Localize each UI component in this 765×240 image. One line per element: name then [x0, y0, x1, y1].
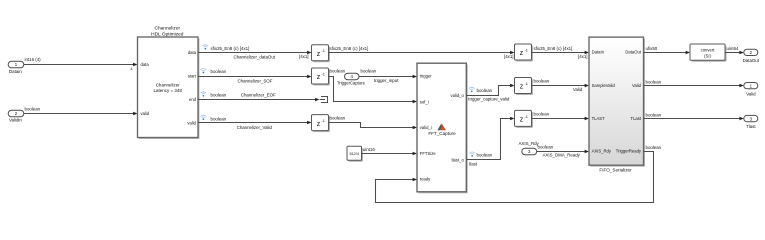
svg-text:z: z [317, 51, 321, 58]
svg-text:-1: -1 [525, 81, 528, 86]
svg-text:valid: valid [187, 120, 196, 125]
svg-text:-1: -1 [322, 48, 325, 53]
signal logging badge on Channelizer start out [201, 69, 207, 74]
svg-text:boolean: boolean [477, 153, 493, 158]
unit delay Z2L [312, 68, 331, 86]
svg-text:DataOut: DataOut [743, 58, 760, 63]
svg-text:boolean: boolean [361, 69, 377, 74]
wire 512/4 to FFT_Capture FFTSize, uint16 [362, 147, 418, 155]
svg-text:FIFO_Serializer: FIFO_Serializer [599, 167, 632, 172]
signal logging badge on FFT tlast_o [469, 152, 475, 157]
block convert (SI) [690, 44, 727, 62]
svg-text:Channelizer_Valid: Channelizer_Valid [237, 125, 273, 130]
unit delay Z3R [515, 110, 534, 128]
svg-text:trigger_capture_valid: trigger_capture_valid [468, 96, 510, 101]
wire Z3L to FFT_Capture valid_i, boolean [329, 115, 418, 129]
svg-text:DataOut: DataOut [625, 50, 641, 55]
svg-text:z: z [520, 117, 524, 124]
wire FFT tlast_o to Z3R, boolean, named tlast [466, 117, 514, 167]
wire Validin to Channelizer valid, type boolean [24, 106, 138, 115]
svg-text:boolean: boolean [534, 111, 550, 116]
svg-text:z: z [520, 84, 524, 91]
svg-text:valid_o: valid_o [451, 93, 465, 98]
wire Datain to Channelizer data, type int16 (4) [24, 57, 138, 71]
svg-text:TLast: TLast [631, 116, 642, 121]
block Channelizer (HDL Optimized subsystem) [138, 25, 200, 139]
svg-text:Channelizer_SOF: Channelizer_SOF [238, 79, 273, 84]
svg-text:trigger_input: trigger_input [374, 78, 399, 83]
signal logging badge on FFT valid_o [469, 87, 475, 92]
wire Z1R to FIFO DataIn, sfix25_En8 (c) [4x1] [532, 46, 590, 59]
wire Channelizer valid to Z3L, boolean, named Channelizer_Valid [198, 116, 312, 130]
svg-text:Valid: Valid [632, 83, 642, 88]
inport 3 AXIS_Rdy [519, 141, 540, 155]
svg-text:boolean: boolean [646, 145, 662, 150]
svg-text:-1: -1 [525, 114, 528, 119]
svg-text:boolean: boolean [534, 78, 550, 83]
wire Channelizer end to terminator, boolean, named Channelizer_EOF [198, 92, 320, 101]
svg-text:boolean: boolean [538, 145, 554, 150]
inport 2 Validin [8, 110, 24, 122]
svg-text:sfix25_En8 (c) [4x1]: sfix25_En8 (c) [4x1] [330, 46, 369, 51]
svg-text:-1: -1 [322, 72, 325, 77]
svg-text:AXIS_Rdy: AXIS_Rdy [519, 141, 540, 146]
svg-text:z: z [317, 121, 321, 128]
svg-text:sfix25_En8 (c) [4x1]: sfix25_En8 (c) [4x1] [211, 46, 250, 51]
inport 1 Datain [8, 61, 24, 74]
signal logging badge on Channelizer end out [201, 92, 207, 97]
block FFT_Capture (MATLAB Function) [417, 63, 468, 193]
svg-text:HDL Optimized: HDL Optimized [151, 31, 184, 37]
svg-text:boolean: boolean [646, 112, 662, 117]
unit delay Z1R [515, 44, 534, 62]
svg-text:Valid: Valid [573, 87, 583, 92]
svg-text:boolean: boolean [477, 88, 493, 93]
svg-text:[4x1]: [4x1] [504, 54, 514, 59]
svg-text:boolean: boolean [330, 115, 346, 120]
svg-text:Channelizer_dataOut: Channelizer_dataOut [234, 55, 276, 60]
svg-text:FFTSize: FFTSize [420, 151, 436, 156]
svg-text:AXIS_DMA_Ready: AXIS_DMA_Ready [543, 153, 581, 158]
svg-text:z: z [317, 74, 321, 81]
terminator on Channelizer_EOF [320, 96, 328, 103]
inport 4 TriggerCapture [337, 73, 366, 85]
outport 2 DataOut [743, 49, 760, 63]
svg-text:valid: valid [141, 111, 150, 116]
svg-text:SampleValid: SampleValid [592, 83, 616, 88]
wire FFT valid_o to Z2R, boolean, named trigger_capture_valid [466, 84, 514, 102]
svg-text:data: data [188, 50, 197, 55]
svg-text:FFT_Capture: FFT_Capture [428, 131, 456, 136]
svg-text:TriggerReady: TriggerReady [616, 148, 642, 153]
wire Z1L to Z1R, sfix25_En8 (c) [4x1] [329, 46, 515, 59]
svg-text:uint16: uint16 [363, 147, 376, 152]
svg-text:Tlast: Tlast [746, 124, 756, 129]
svg-text:Latency = 348: Latency = 348 [153, 88, 182, 93]
svg-text:uint64: uint64 [727, 46, 740, 51]
MATLAB membrane icon [438, 124, 447, 131]
outport 3 Tlast [744, 115, 758, 129]
svg-text:int16 (4): int16 (4) [25, 57, 42, 62]
svg-text:convert: convert [701, 47, 716, 52]
svg-text:-1: -1 [525, 48, 528, 53]
svg-text:512/4: 512/4 [349, 152, 359, 156]
svg-text:ready: ready [420, 177, 431, 182]
wire Z2L to FFT_Capture sof_i, boolean [329, 69, 418, 104]
svg-text:Channelizer: Channelizer [154, 25, 180, 31]
svg-text:boolean: boolean [211, 116, 227, 121]
unit delay Z3L [312, 115, 331, 133]
constant 512/4 [347, 146, 363, 162]
svg-text:boolean: boolean [330, 69, 346, 74]
svg-text:boolean: boolean [646, 79, 662, 84]
svg-text:valid_i: valid_i [420, 125, 432, 130]
svg-text:-1: -1 [322, 118, 325, 123]
wire Channelizer data to Z1L, sfix25_En8 (c) [4x1], named Channelizer_dataOut [198, 46, 312, 60]
svg-text:[4x1]: [4x1] [578, 54, 588, 59]
signal logging badge on Channelizer valid out [201, 115, 207, 120]
svg-text:Datain: Datain [9, 69, 22, 74]
wire Z3R to FIFO TLAST, boolean [532, 111, 590, 120]
wire AXIS_Rdy to FIFO AXIS_Rdy, boolean, named AXIS_DMA_Ready [537, 145, 589, 158]
wire FIFO TriggerReady feedback to FFT ready, boolean [376, 145, 662, 203]
signal logging badge on Channelizer data out [203, 45, 209, 50]
wire TriggerCapture to FFT_Capture trigger, boolean, named trigger_input [359, 69, 417, 84]
svg-text:TLAST: TLAST [592, 116, 605, 121]
wire FIFO Valid to outport Valid, boolean [644, 79, 744, 87]
svg-text:[4x1]: [4x1] [299, 54, 309, 59]
wire FIFO TLast to outport Tlast, boolean [644, 112, 744, 120]
svg-text:data: data [141, 62, 150, 67]
svg-text:TriggerCapture: TriggerCapture [337, 81, 366, 86]
svg-text:trigger: trigger [420, 74, 432, 79]
svg-text:Valid: Valid [746, 91, 756, 96]
svg-text:sof_i: sof_i [420, 99, 429, 104]
svg-text:boolean: boolean [25, 106, 41, 111]
wire FIFO DataOut to convert, ufix50 [644, 46, 691, 54]
unit delay Z1L [312, 45, 331, 63]
wire Channelizer start to Z2L, boolean, named Channelizer_SOF [198, 69, 312, 84]
svg-text:tlast: tlast [469, 162, 478, 167]
svg-text:Channelizer: Channelizer [156, 83, 181, 88]
svg-text:sfix25_En8 (c) [4x1]: sfix25_En8 (c) [4x1] [534, 46, 573, 51]
svg-text:DataIn: DataIn [592, 50, 605, 55]
svg-text:tlast_o: tlast_o [451, 157, 464, 162]
svg-text:start: start [188, 74, 197, 79]
unit delay Z2R [515, 78, 534, 96]
svg-text:z: z [520, 50, 524, 57]
wire convert to outport DataOut, uint64 [725, 46, 744, 54]
svg-text:ufix50: ufix50 [646, 46, 658, 51]
outport 1 Valid [744, 83, 758, 97]
svg-text:(SI): (SI) [704, 53, 711, 58]
svg-text:boolean: boolean [211, 69, 227, 74]
wire Z2R to FIFO SampleValid, boolean, named Valid [532, 78, 590, 92]
svg-text:end: end [189, 97, 197, 102]
svg-text:boolean: boolean [211, 92, 227, 97]
block FIFO_Serializer [589, 37, 645, 172]
svg-text:AXIS_Rdy: AXIS_Rdy [592, 148, 612, 153]
svg-text:Validin: Validin [9, 117, 22, 122]
svg-text:Channelizer_EOF: Channelizer_EOF [241, 92, 276, 97]
